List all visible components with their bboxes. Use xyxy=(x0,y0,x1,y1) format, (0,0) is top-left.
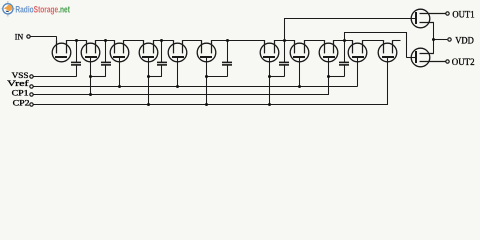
svg-text:CP1: CP1 xyxy=(12,89,29,98)
svg-text:IN: IN xyxy=(15,32,23,41)
svg-text:Vref: Vref xyxy=(7,78,29,88)
svg-text:VDD: VDD xyxy=(455,36,474,46)
svg-text:OUT1: OUT1 xyxy=(452,10,474,20)
svg-text:OUT2: OUT2 xyxy=(452,58,475,68)
svg-text:RadioStorage.net: RadioStorage.net xyxy=(15,5,70,16)
svg-text:CP2: CP2 xyxy=(13,99,30,108)
